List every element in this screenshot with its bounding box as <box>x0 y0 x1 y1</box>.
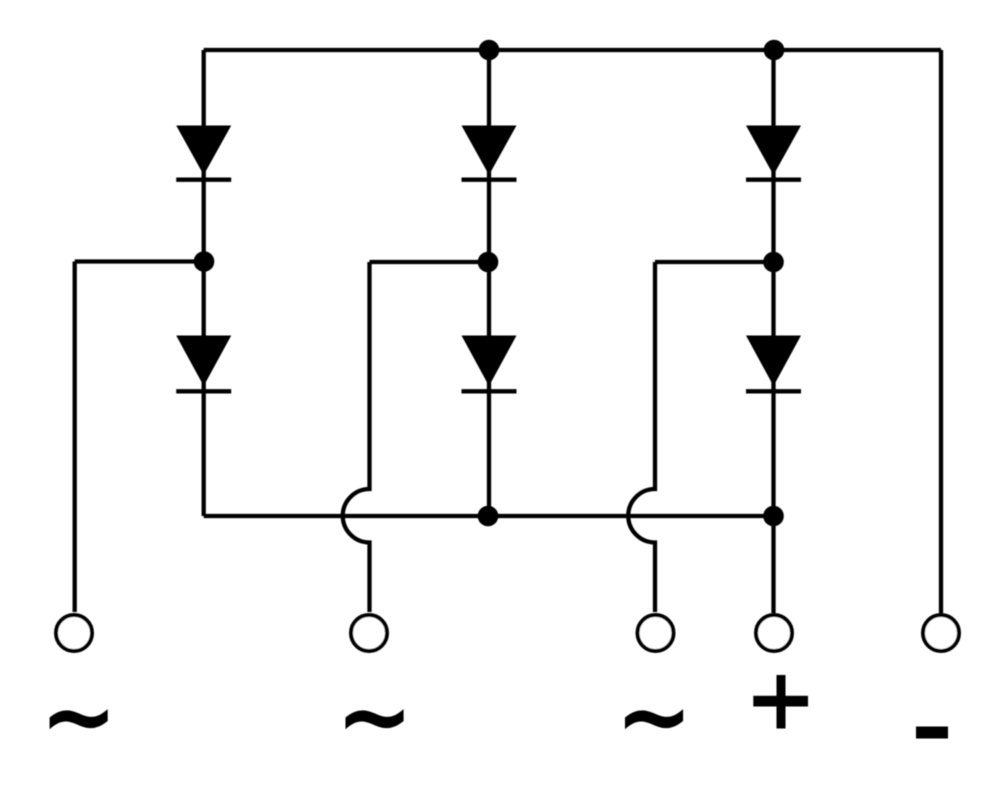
label ~ AC2 <box>346 709 404 729</box>
node junction bottom bus / branch 2 <box>478 506 499 527</box>
terminal AC3 <box>638 615 674 651</box>
diode D3 <box>746 126 801 180</box>
wire branch 1 vertical <box>202 50 206 516</box>
node junction top bus / branch 3 <box>764 40 785 61</box>
terminal plus <box>756 615 792 651</box>
node junction top bus / branch 2 <box>479 40 500 61</box>
wire AC phase 1 vertical <box>73 262 77 613</box>
diode D5 <box>462 336 517 392</box>
label plus <box>753 675 808 729</box>
wire bottom bus <box>204 514 774 518</box>
wire AC phase 1 horizontal <box>75 259 204 263</box>
label ~ AC3 <box>625 709 683 729</box>
diode D1 <box>176 126 231 180</box>
wire branch 2 vertical <box>487 50 491 516</box>
diode D4 <box>176 336 231 392</box>
diode D2 <box>462 126 517 180</box>
node AC1 tap <box>194 251 215 272</box>
label minus <box>916 727 948 739</box>
wire AC phase 2 horizontal <box>370 260 489 264</box>
wire AC phase 3 horizontal <box>655 260 774 264</box>
wire branch 3 vertical down to plus terminal <box>771 50 775 613</box>
terminal AC2 <box>351 615 387 651</box>
diode D6 <box>746 336 801 392</box>
node AC2 tap <box>478 252 499 273</box>
wire AC phase 3 vertical with hop over bottom bus <box>628 262 655 612</box>
wire AC phase 2 vertical with hop over bottom bus <box>343 262 370 612</box>
label ~ AC1 <box>50 709 108 729</box>
wire top bus (+ rail top) <box>204 48 941 52</box>
terminal AC1 <box>56 615 92 651</box>
node junction bottom bus / branch 3 <box>763 506 784 527</box>
wire right drop to minus terminal <box>939 50 943 613</box>
node AC3 tap <box>763 252 784 273</box>
terminal minus <box>923 615 959 651</box>
